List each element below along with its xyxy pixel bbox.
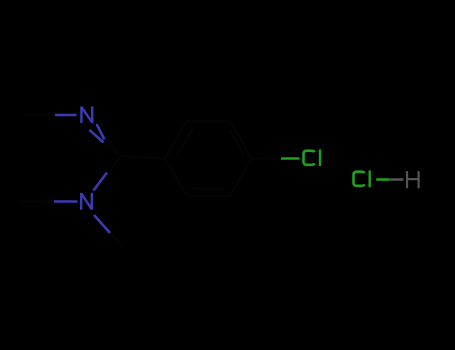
wire: bond N2-C1, carbon half (near-black) xyxy=(107,156,121,173)
wire: methyl bond CH3-N1, nitrogen half (blue) xyxy=(55,114,77,117)
wire: bond N2-C1, nitrogen half (blue) xyxy=(94,173,108,191)
wire: H-Cl bond, hydrogen half (gray) xyxy=(389,178,403,181)
wire: methyl bond N2-CH3 (lower right), carbon half (near-black) xyxy=(110,233,123,248)
wire: double bond N1=C1, carbon half inner line (near-black) xyxy=(105,140,118,150)
node N2 (amine nitrogen label, drawn as paths) xyxy=(81,193,92,210)
wire: bond ring-Cl, carbon half (near-black) xyxy=(252,157,282,160)
ring inner double-bond line (bottom edge) xyxy=(193,187,224,190)
node H of HCl (hydrogen label, drawn as paths) xyxy=(407,171,419,188)
node Cl (ring chlorine label, drawn as paths) xyxy=(304,149,321,166)
wire: H-Cl bond, chlorine half (green) xyxy=(376,178,389,181)
wire: bond C1 to benzene ring left vertex (near-black) xyxy=(121,156,165,159)
wire: methyl bond CH3-N2 (left), carbon half (near-black) xyxy=(22,200,55,203)
ring inner double-bond line (right-upper edge) xyxy=(229,129,244,155)
wire: double bond N1=C1, carbon half main line (near-black) xyxy=(104,143,122,157)
node Cl of HCl (hydrochloride chlorine label, drawn as paths) xyxy=(354,170,370,187)
wire: methyl bond CH3-N1, carbon half (near-black) xyxy=(23,114,55,117)
wire: methyl bond N2-CH3 (lower right), nitrogen half (blue) xyxy=(94,215,110,233)
node N1 (imine nitrogen label, drawn as paths) xyxy=(81,106,92,123)
wire: bond ring-Cl, chlorine half (green) xyxy=(281,157,300,160)
wire: double bond N1=C1, nitrogen half main line (blue) xyxy=(89,130,103,143)
benzene ring C6H4 (near-black carbon skeleton) xyxy=(165,121,251,196)
wire: methyl bond CH3-N2 (left), nitrogen half (blue) xyxy=(54,200,78,203)
ring inner double-bond line (top-left edge) xyxy=(178,129,194,156)
wire: double bond N1=C1, nitrogen half inner line (blue) xyxy=(97,124,105,140)
